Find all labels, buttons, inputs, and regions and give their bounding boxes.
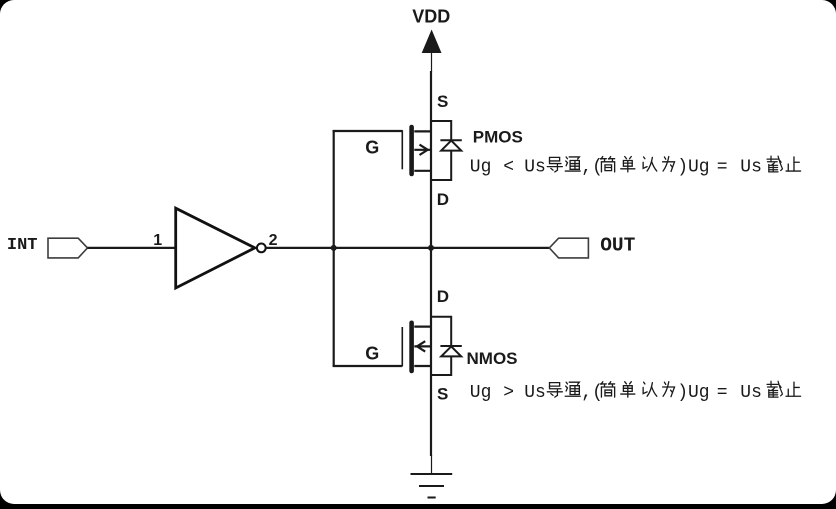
wire gate bus to PMOS gate [333, 130, 403, 132]
connector INT flag [48, 238, 88, 258]
svg-text:S: S [437, 92, 448, 111]
svg-text:INT: INT [7, 236, 38, 255]
svg-text:PMOS: PMOS [473, 128, 523, 147]
svg-text:G: G [365, 343, 379, 363]
ground symbol [411, 474, 453, 498]
svg-text:NMOS: NMOS [467, 349, 518, 368]
junction dot output node [428, 245, 434, 251]
svg-text:Us: Us [524, 158, 546, 178]
wire gate bus to NMOS gate [333, 365, 403, 367]
svg-text:1: 1 [153, 232, 162, 249]
svg-text:S: S [437, 385, 448, 404]
svg-text:,(: ,( [581, 383, 603, 403]
power pin VDD stem [431, 53, 433, 72]
ground pin stem [431, 455, 433, 474]
svg-text:)Ug: )Ug [677, 383, 709, 403]
svg-text:OUT: OUT [600, 234, 635, 256]
connector OUT flag [549, 238, 588, 258]
wire inverter output to OUT node [266, 247, 550, 249]
power symbol VDD arrow [422, 30, 442, 54]
wire INT to inverter input [88, 247, 177, 249]
inverter U1 bubble [257, 244, 266, 253]
svg-text:Us: Us [740, 383, 762, 403]
svg-text:D: D [437, 190, 449, 209]
wire output node to NMOS drain [430, 248, 432, 456]
annotation line 2: Ug > Us conducts, (simply) Ug = Us cuts off [470, 381, 801, 403]
svg-text:=: = [717, 158, 728, 178]
svg-text:>: > [503, 383, 514, 403]
svg-text:)Ug: )Ug [677, 158, 709, 178]
inverter U1 triangle [176, 208, 255, 288]
svg-text:Ug: Ug [470, 158, 492, 178]
junction dot gate bus [331, 245, 337, 251]
transistor Q1 PMOS [402, 127, 431, 174]
svg-text:Us: Us [524, 383, 546, 403]
wire VDD to PMOS source [430, 71, 432, 248]
svg-text:2: 2 [269, 232, 278, 249]
svg-text:=: = [717, 383, 728, 403]
svg-text:VDD: VDD [412, 7, 450, 27]
wire gate bus vertical [333, 130, 335, 366]
PMOS body diode D1 [431, 121, 462, 180]
svg-text:<: < [503, 158, 514, 178]
svg-text:Us: Us [740, 158, 762, 178]
svg-text:Ug: Ug [470, 383, 492, 403]
NMOS body diode D2 [431, 317, 462, 375]
svg-text:,(: ,( [581, 158, 603, 178]
svg-text:G: G [365, 138, 379, 158]
svg-text:D: D [437, 287, 449, 306]
transistor Q2 NMOS [402, 323, 431, 371]
annotation line 1: Ug < Us conducts, (simply) Ug = Us cuts off [470, 156, 801, 178]
